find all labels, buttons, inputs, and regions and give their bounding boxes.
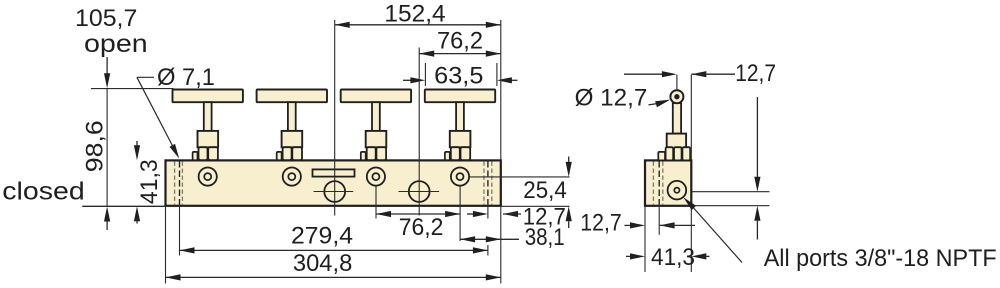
svg-text:41,3: 41,3	[651, 244, 695, 271]
arrow 63,5 right (points left)	[497, 77, 512, 83]
valve 2 outlet port outer circle	[283, 168, 301, 186]
valve 3 stem	[372, 102, 380, 131]
arrow top 12,7 (points right at stem axis)	[662, 71, 677, 77]
valve 1 outlet port outer circle	[199, 168, 217, 186]
side view port inner circle	[674, 188, 679, 193]
block bottom extension to right	[692, 205, 770, 207]
arrow 25,4 bottom (points up)	[566, 206, 572, 221]
12,7 left arrow shaft	[467, 213, 474, 215]
leader line all ports note	[692, 207, 742, 263]
arrow 105,7 bottom (points up)	[104, 207, 110, 222]
valve 1 bonnet	[198, 131, 219, 147]
side 41,3 left shaft	[626, 255, 634, 257]
block right edge extension above	[690, 75, 692, 160]
leader line for diameter 7,1	[137, 77, 176, 151]
top 12,7 line to text	[691, 73, 735, 75]
bar right edge extension above	[500, 20, 502, 160]
svg-text:105,7: 105,7	[75, 5, 137, 32]
svg-text:open: open	[84, 30, 148, 58]
open handle height reference line	[91, 88, 173, 90]
svg-text:12,7: 12,7	[580, 210, 621, 237]
arrow 63,5 left (points right)	[410, 77, 425, 83]
block left edge extension below	[644, 206, 646, 272]
bar bottom edge extension to right	[502, 205, 570, 207]
block right edge extension below	[690, 206, 692, 272]
105,7 dimension line upper shaft	[106, 57, 108, 77]
63,5 right arrow shaft	[508, 79, 518, 81]
port 4 extension below	[459, 186, 461, 241]
side view valve bonnet	[667, 134, 686, 149]
leader arrow diameter 7,1	[170, 144, 180, 159]
valve 3 outlet port inner circle	[372, 173, 379, 180]
inlet port 2 horizontal centerline	[399, 191, 440, 193]
valve 3 hex nut right flat	[376, 147, 386, 160]
arrow 38,1 right (points right)	[486, 236, 501, 242]
inlet port 1 vertical centerline / extension to 152,4	[334, 20, 336, 216]
svg-text:76,2: 76,2	[437, 27, 483, 54]
side view valve stem	[673, 103, 681, 134]
valve 1 T-handle	[173, 90, 243, 103]
svg-text:12,7: 12,7	[735, 60, 776, 87]
valve 2 hex nut right flat	[292, 147, 302, 160]
inlet port circle 1	[324, 181, 345, 202]
side 41,3 right shaft	[703, 255, 709, 257]
valve 4 outlet port outer circle	[451, 168, 469, 186]
svg-text:Ø 12,7: Ø 12,7	[575, 85, 648, 112]
arrow side 12,7 (points right at block edge)	[630, 222, 645, 228]
side port height line to right	[692, 191, 770, 193]
port row height line to right	[469, 176, 569, 178]
side view hidden hole line (right)	[662, 162, 664, 205]
svg-text:38,1: 38,1	[525, 224, 565, 251]
dimension line 279,4	[180, 249, 488, 251]
inlet port circle 2	[409, 181, 430, 202]
valve 1 hex nut middle flat	[199, 147, 208, 160]
valve 4 hex nut left flat	[445, 152, 450, 160]
dimension line 76,2 top	[419, 53, 501, 55]
side view T-handle end circle	[670, 90, 683, 103]
dimension line 38,1	[460, 238, 519, 240]
arrow side 12,7 (points left at hole centerline)	[660, 222, 675, 228]
arrow 12,7 (points left at bar edge)	[503, 211, 518, 217]
12,7 right arrow shaft to text	[503, 213, 521, 215]
side view hex nut flat 1	[666, 147, 674, 160]
arrow 38,1 left (points left)	[460, 236, 475, 242]
left mounting hole hidden line (right)	[181, 162, 183, 205]
arrow top 12,7 (points left at block edge)	[691, 71, 706, 77]
left mounting hole hidden line (left)	[174, 162, 176, 205]
valve 3 hex nut left flat	[361, 152, 366, 160]
arrow 304,8 left	[166, 274, 181, 280]
valve 2 stem	[288, 102, 296, 131]
leader dash for diameter 7,1	[137, 76, 154, 78]
leader arrow diameter 12,7	[655, 100, 670, 108]
manifold block (side view)	[645, 160, 691, 205]
valve 4 T-handle	[425, 90, 495, 103]
right mounting hole hidden line (left)	[483, 162, 485, 205]
port 3 extension below	[375, 186, 377, 219]
svg-text:63,5: 63,5	[434, 63, 483, 90]
left mounting hole centerline (dashed)	[179, 161, 181, 205]
valve 1 outlet port inner circle	[204, 173, 211, 180]
valve 4 outlet port inner circle	[457, 173, 464, 180]
right mounting hole extension below bar	[487, 205, 489, 219]
side view hole centerline (dashed)	[658, 161, 660, 205]
side 12,7 right shaft	[660, 224, 695, 226]
side view hex nut flat 3	[682, 147, 690, 160]
valve 4 hex nut right flat	[461, 147, 471, 160]
valve 4 hex nut middle flat	[451, 147, 460, 160]
105,7 dimension line lower shaft	[106, 219, 108, 231]
label slot on bar	[313, 169, 355, 176]
right 12,7 lower shaft	[756, 221, 758, 240]
top 12,7 left shaft	[624, 73, 663, 75]
arrow right 12,7 (points up)	[754, 206, 760, 221]
dimension line 76,2 bottom	[376, 213, 460, 215]
dimension line 152,4	[335, 24, 501, 26]
41,3 dimension line upper shaft	[136, 141, 138, 149]
arrow 25,4 top (points down)	[566, 162, 572, 177]
valve 3 bonnet	[366, 131, 387, 147]
left mounting hole extension below	[179, 205, 181, 256]
arrow right 12,7 (points down)	[754, 177, 760, 192]
25,4 upper stub	[568, 157, 570, 167]
side 12,7 left shaft	[625, 224, 634, 226]
arrow 279,4 left	[180, 247, 195, 253]
valve 1 hex nut left flat	[193, 152, 198, 160]
bar left edge extension below	[165, 206, 167, 284]
right mounting hole centerline (dashed)	[487, 161, 489, 205]
41,3 dimension line lower shaft	[136, 218, 138, 223]
63,5 right tick	[496, 63, 498, 86]
inlet port 2 vertical centerline / extension to 76,2	[418, 48, 420, 216]
arrow 304,8 right	[486, 274, 501, 280]
svg-text:41,3: 41,3	[136, 159, 163, 204]
svg-text:304,8: 304,8	[293, 250, 352, 277]
63,5 left tick	[424, 63, 426, 86]
inlet port 1 horizontal centerline	[314, 191, 354, 193]
side view hex nut flat 2	[674, 147, 682, 160]
valve 3 hex nut middle flat	[367, 147, 376, 160]
arrow 152,4 right	[486, 22, 501, 28]
105,7 dimension line	[106, 89, 108, 206]
valve 4 bonnet	[450, 131, 471, 147]
valve 1 stem	[204, 102, 212, 131]
dimension line 304,8	[166, 276, 501, 278]
svg-text:279,4: 279,4	[291, 222, 353, 249]
valve 2 T-handle	[257, 90, 327, 103]
bar bottom edge extension to left	[82, 205, 165, 207]
arrow 12,7 (points right at hole centerline)	[473, 211, 488, 217]
25,4 lower shaft	[568, 221, 570, 228]
arrow side 41,3 left (points right)	[630, 253, 645, 259]
side view port outer circle	[668, 181, 687, 200]
arrow 76,2 top right	[486, 51, 501, 57]
arrow side 41,3 right (points left)	[691, 253, 706, 259]
svg-text:98,6: 98,6	[81, 120, 108, 172]
arrow 41,3 top (points down)	[134, 145, 140, 160]
valve 2 hex nut left flat	[277, 152, 282, 160]
arrow 279,4 right	[473, 247, 488, 253]
arrow 152,4 left	[335, 22, 350, 28]
bar right edge extension below	[500, 206, 502, 284]
leader line for diameter 12,7	[649, 103, 659, 105]
arrow 76,2 bottom left	[376, 211, 391, 217]
side view hole extension below	[658, 205, 660, 235]
svg-text:All ports 3/8"-18 NPTF: All ports 3/8"-18 NPTF	[764, 245, 997, 272]
valve 1 hex nut right flat	[208, 147, 218, 160]
right 12,7 vertical dimension line	[756, 97, 758, 179]
arrow 76,2 bottom right	[445, 211, 460, 217]
svg-text:152,4: 152,4	[384, 1, 445, 28]
valve 2 hex nut middle flat	[283, 147, 292, 160]
valve 3 T-handle	[341, 90, 411, 103]
svg-text:Ø 7,1: Ø 7,1	[157, 64, 215, 91]
arrow 105,7 top (points down)	[104, 73, 110, 88]
side view hex nut left flat	[658, 152, 665, 161]
valve 4 stem	[456, 102, 464, 131]
manifold bar body (front view)	[166, 160, 501, 205]
svg-text:25,4: 25,4	[523, 177, 567, 204]
valve 2 outlet port inner circle	[288, 173, 295, 180]
arrow 41,3 bottom (points up)	[134, 206, 140, 221]
right mounting hole hidden line (right)	[491, 162, 493, 205]
valve 3 outlet port outer circle	[367, 168, 385, 186]
svg-text:76,2: 76,2	[399, 214, 444, 241]
right mounting hole extension lower part	[487, 245, 489, 256]
stem axis extension line	[676, 75, 678, 90]
side view hidden hole line (left)	[652, 162, 654, 205]
63,5 left arrow shaft	[403, 79, 414, 81]
valve 2 bonnet	[282, 131, 303, 147]
leader arrow all ports note	[683, 197, 696, 210]
side view T-handle center dot	[675, 95, 679, 99]
arrow 76,2 top left	[419, 51, 434, 57]
svg-text:closed: closed	[2, 178, 84, 206]
